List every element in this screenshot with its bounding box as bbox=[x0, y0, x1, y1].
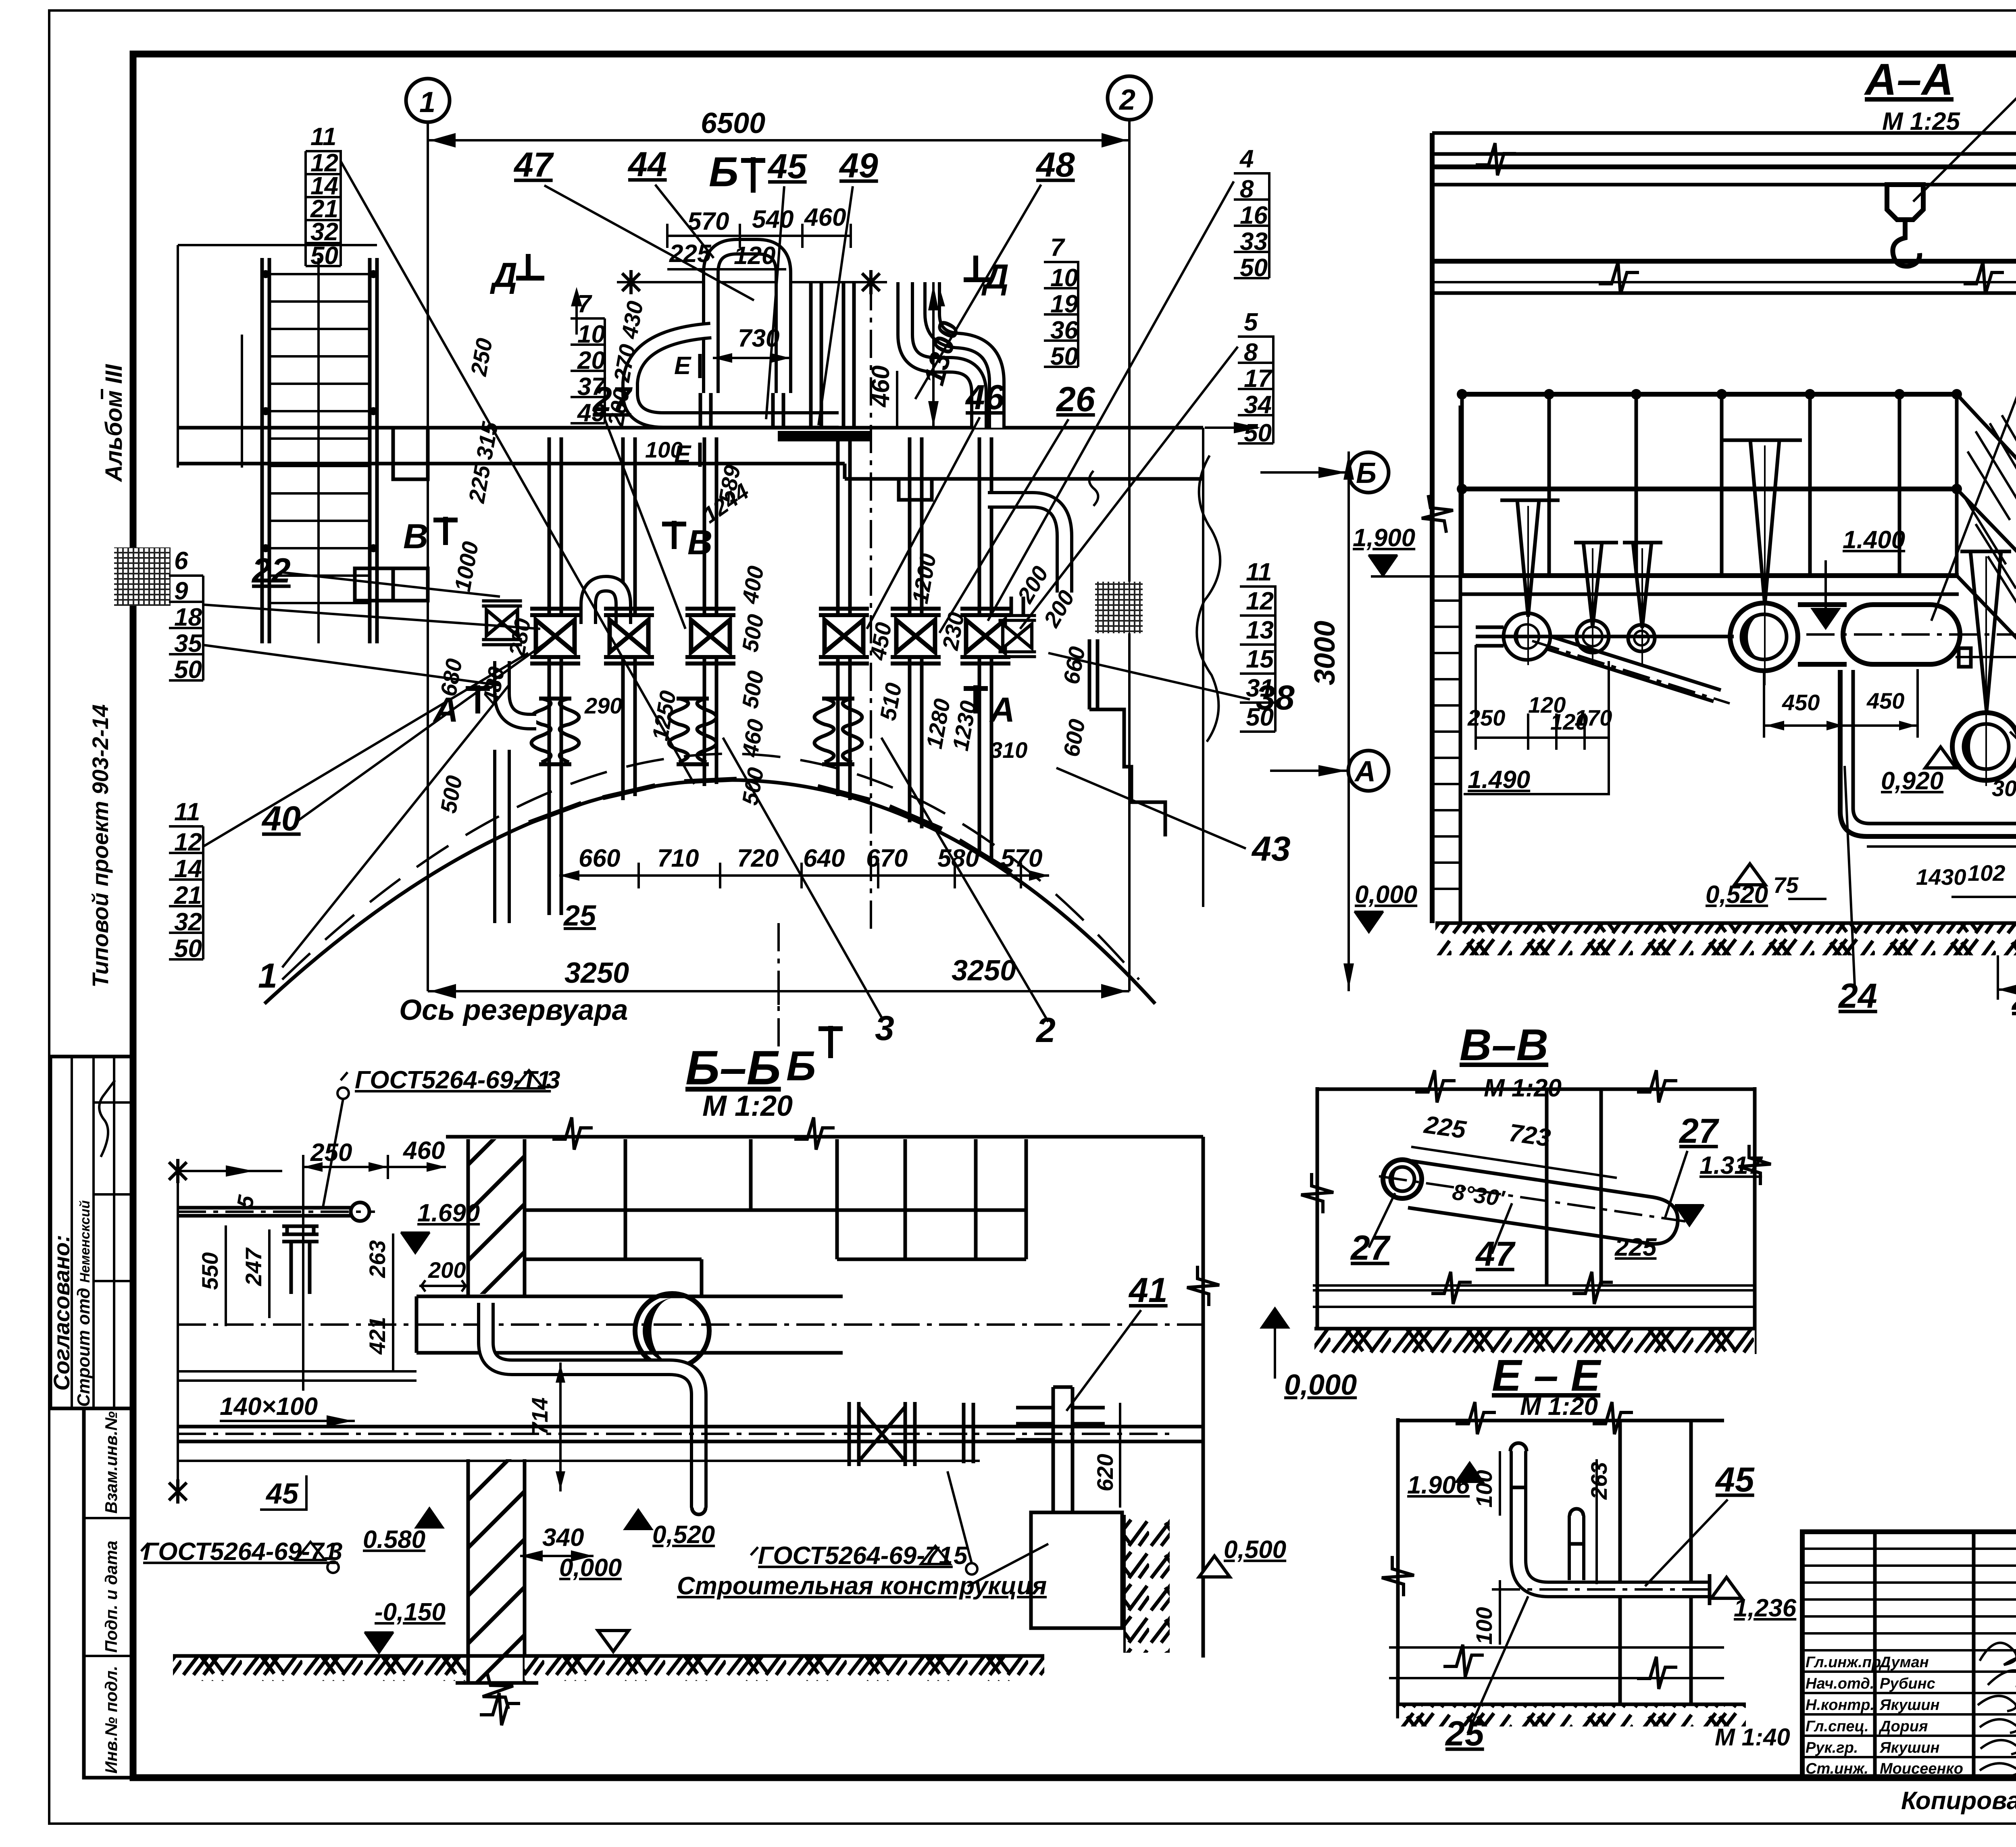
svg-text:3: 3 bbox=[875, 1009, 894, 1048]
svg-text:Дория: Дория bbox=[1879, 1718, 1928, 1735]
svg-text:Инв.№ подл.: Инв.№ подл. bbox=[102, 1666, 121, 1774]
svg-text:3250: 3250 bbox=[564, 957, 629, 989]
svg-text:8: 8 bbox=[1240, 175, 1254, 203]
svg-text:640: 640 bbox=[803, 844, 845, 872]
svg-text:100: 100 bbox=[1471, 1470, 1497, 1508]
svg-text:Н.контр.: Н.контр. bbox=[1806, 1697, 1874, 1714]
svg-text:12: 12 bbox=[1246, 587, 1274, 615]
svg-text:225: 225 bbox=[1422, 1111, 1468, 1144]
svg-text:32: 32 bbox=[174, 908, 202, 936]
svg-text:9: 9 bbox=[174, 577, 188, 605]
svg-text:263: 263 bbox=[1586, 1462, 1612, 1500]
svg-text:45: 45 bbox=[265, 1478, 299, 1510]
svg-text:1.690: 1.690 bbox=[417, 1199, 480, 1227]
svg-text:6500: 6500 bbox=[701, 107, 765, 139]
svg-text:М 1:20: М 1:20 bbox=[702, 1090, 793, 1122]
svg-text:10: 10 bbox=[577, 320, 605, 348]
svg-text:М 1:20: М 1:20 bbox=[1520, 1393, 1598, 1421]
svg-text:550: 550 bbox=[197, 1252, 223, 1290]
svg-text:27: 27 bbox=[1350, 1229, 1391, 1267]
svg-text:1.400: 1.400 bbox=[1843, 526, 1905, 554]
svg-text:200: 200 bbox=[428, 1257, 466, 1283]
svg-text:0,000: 0,000 bbox=[1284, 1369, 1357, 1401]
svg-text:0,000: 0,000 bbox=[559, 1554, 622, 1582]
svg-text:225: 225 bbox=[669, 240, 712, 268]
svg-text:А: А bbox=[1354, 755, 1376, 788]
svg-text:47: 47 bbox=[513, 146, 554, 184]
svg-text:44: 44 bbox=[627, 145, 667, 184]
svg-text:10: 10 bbox=[1050, 264, 1078, 292]
svg-text:Д: Д bbox=[489, 256, 517, 295]
svg-text:310: 310 bbox=[990, 737, 1027, 763]
svg-text:50: 50 bbox=[310, 242, 338, 270]
svg-text:36: 36 bbox=[1050, 316, 1078, 344]
svg-text:170: 170 bbox=[1574, 705, 1612, 730]
svg-text:Гл.спец.: Гл.спец. bbox=[1806, 1718, 1869, 1735]
svg-text:6: 6 bbox=[174, 547, 188, 575]
svg-text:120: 120 bbox=[734, 242, 775, 270]
svg-text:714: 714 bbox=[527, 1398, 552, 1435]
svg-text:100: 100 bbox=[645, 437, 683, 462]
svg-text:5: 5 bbox=[1244, 308, 1258, 336]
svg-text:620: 620 bbox=[1092, 1454, 1118, 1491]
svg-text:Б: Б bbox=[786, 1043, 816, 1090]
svg-text:8: 8 bbox=[1244, 339, 1258, 366]
svg-text:27: 27 bbox=[1679, 1112, 1720, 1150]
svg-text:225: 225 bbox=[1614, 1233, 1657, 1261]
svg-text:14: 14 bbox=[174, 855, 202, 883]
svg-text:Копировал: Копировал bbox=[1901, 1787, 2016, 1815]
svg-text:11: 11 bbox=[310, 123, 336, 151]
svg-text:730: 730 bbox=[738, 324, 779, 352]
svg-text:540: 540 bbox=[752, 206, 793, 233]
svg-text:Альбом III: Альбом III bbox=[101, 364, 127, 483]
svg-text:35: 35 bbox=[174, 630, 202, 657]
svg-text:460: 460 bbox=[804, 204, 846, 231]
svg-text:Моисеенко: Моисеенко bbox=[1880, 1760, 1963, 1777]
svg-text:7: 7 bbox=[577, 290, 592, 318]
svg-text:ГОСТ5264-69-71: ГОСТ5264-69-71 bbox=[143, 1538, 338, 1566]
svg-text:720: 720 bbox=[737, 844, 779, 872]
svg-text:1: 1 bbox=[258, 957, 277, 995]
svg-text:50: 50 bbox=[1244, 419, 1272, 447]
svg-text:Нач.отд.: Нач.отд. bbox=[1806, 1675, 1874, 1692]
svg-text:50: 50 bbox=[174, 935, 202, 963]
svg-text:20: 20 bbox=[577, 347, 605, 374]
svg-text:В–В: В–В bbox=[1460, 1020, 1548, 1070]
svg-text:1.490: 1.490 bbox=[1468, 766, 1530, 794]
svg-text:25: 25 bbox=[1445, 1714, 1485, 1753]
svg-text:25: 25 bbox=[563, 900, 596, 932]
svg-text:3250: 3250 bbox=[952, 955, 1016, 987]
svg-text:43: 43 bbox=[1251, 830, 1291, 868]
svg-text:16: 16 bbox=[1240, 202, 1268, 229]
svg-text:50: 50 bbox=[174, 656, 202, 684]
svg-text:Думан: Думан bbox=[1879, 1654, 1929, 1671]
svg-text:Строительная конструкция: Строительная конструкция bbox=[677, 1572, 1047, 1600]
svg-text:340: 340 bbox=[542, 1524, 584, 1552]
svg-text:140×100: 140×100 bbox=[220, 1393, 318, 1421]
svg-text:300: 300 bbox=[1992, 776, 2016, 801]
svg-text:0,520: 0,520 bbox=[652, 1521, 715, 1549]
svg-text:Б: Б bbox=[1356, 457, 1377, 489]
svg-text:Рук.гр.: Рук.гр. bbox=[1806, 1739, 1858, 1756]
svg-text:11: 11 bbox=[174, 798, 200, 826]
svg-text:570: 570 bbox=[1001, 844, 1042, 872]
svg-text:102: 102 bbox=[1968, 860, 2005, 886]
svg-text:247: 247 bbox=[241, 1247, 266, 1286]
svg-text:3000: 3000 bbox=[1309, 621, 1341, 685]
svg-text:Согласовано:: Согласовано: bbox=[49, 1235, 74, 1391]
svg-text:0.580: 0.580 bbox=[363, 1526, 425, 1554]
svg-text:250: 250 bbox=[310, 1139, 352, 1167]
svg-text:41: 41 bbox=[1128, 1271, 1168, 1310]
svg-text:48: 48 bbox=[1035, 146, 1075, 184]
svg-text:ГОСТ5264-69-71: ГОСТ5264-69-71 bbox=[758, 1542, 953, 1570]
svg-text:Б: Б bbox=[709, 149, 739, 196]
svg-text:Рубинс: Рубинс bbox=[1880, 1675, 1935, 1692]
svg-text:250: 250 bbox=[1467, 705, 1505, 730]
svg-text:34: 34 bbox=[1244, 391, 1272, 419]
svg-text:18: 18 bbox=[174, 603, 202, 631]
svg-text:1,900: 1,900 bbox=[1353, 524, 1415, 552]
svg-text:421: 421 bbox=[364, 1317, 390, 1355]
svg-text:710: 710 bbox=[657, 844, 699, 872]
svg-text:47: 47 bbox=[1475, 1235, 1516, 1273]
svg-text:723: 723 bbox=[1507, 1119, 1552, 1152]
svg-text:26: 26 bbox=[1056, 380, 1095, 419]
svg-text:21: 21 bbox=[174, 882, 202, 909]
svg-text:45: 45 bbox=[767, 147, 807, 186]
svg-text:11: 11 bbox=[1246, 558, 1272, 586]
svg-text:15: 15 bbox=[1246, 645, 1274, 673]
svg-text:75: 75 bbox=[1773, 872, 1799, 898]
svg-text:3: 3 bbox=[546, 1066, 560, 1094]
svg-text:4: 4 bbox=[1239, 145, 1254, 173]
svg-text:40: 40 bbox=[261, 799, 301, 838]
svg-text:24: 24 bbox=[1838, 977, 1877, 1015]
svg-text:23: 23 bbox=[2011, 979, 2016, 1017]
svg-text:670: 670 bbox=[866, 844, 908, 872]
svg-text:Б–Б: Б–Б bbox=[685, 1041, 781, 1095]
svg-text:Ось резервуара: Ось резервуара bbox=[399, 994, 628, 1026]
svg-text:12: 12 bbox=[174, 828, 202, 856]
svg-text:660: 660 bbox=[579, 844, 620, 872]
svg-text:450: 450 bbox=[1782, 690, 1820, 715]
svg-text:Ст.инж.: Ст.инж. bbox=[1806, 1760, 1868, 1777]
svg-text:-0,150: -0,150 bbox=[375, 1598, 446, 1626]
svg-text:0,500: 0,500 bbox=[1224, 1536, 1286, 1564]
svg-text:7: 7 bbox=[1050, 234, 1065, 262]
svg-text:450: 450 bbox=[1866, 688, 1904, 713]
svg-text:22: 22 bbox=[251, 551, 291, 590]
svg-text:М 1:40: М 1:40 bbox=[1715, 1724, 1790, 1751]
svg-text:19: 19 bbox=[1050, 290, 1078, 318]
svg-text:50: 50 bbox=[1050, 343, 1078, 370]
svg-text:А–А: А–А bbox=[1864, 55, 1954, 104]
svg-text:1.317: 1.317 bbox=[1699, 1152, 1763, 1179]
svg-text:Подп. и дата: Подп. и дата bbox=[102, 1541, 121, 1653]
svg-text:А: А bbox=[989, 691, 1015, 729]
svg-text:46: 46 bbox=[965, 378, 1005, 417]
svg-text:17: 17 bbox=[1244, 365, 1272, 393]
svg-text:570: 570 bbox=[687, 208, 729, 235]
svg-text:В: В bbox=[687, 523, 712, 562]
svg-text:0,920: 0,920 bbox=[1881, 767, 1943, 795]
svg-text:Е: Е bbox=[674, 352, 691, 380]
svg-text:1: 1 bbox=[419, 86, 435, 119]
svg-text:263: 263 bbox=[364, 1240, 390, 1278]
svg-text:Взам.инв.№: Взам.инв.№ bbox=[102, 1411, 121, 1514]
svg-text:Типовой проект 903-2-14: Типовой проект 903-2-14 bbox=[87, 704, 113, 988]
svg-text:В: В bbox=[403, 517, 428, 556]
svg-text:13: 13 bbox=[1246, 616, 1274, 644]
svg-text:33: 33 bbox=[1240, 228, 1268, 256]
svg-text:460: 460 bbox=[402, 1137, 445, 1165]
svg-text:2: 2 bbox=[1118, 84, 1135, 116]
svg-text:Якушин: Якушин bbox=[1879, 1739, 1940, 1756]
svg-text:0,000: 0,000 bbox=[1355, 881, 1417, 909]
svg-text:50: 50 bbox=[1240, 254, 1268, 282]
svg-text:49: 49 bbox=[839, 146, 878, 185]
svg-text:100: 100 bbox=[1471, 1607, 1497, 1645]
svg-text:45: 45 bbox=[1715, 1460, 1755, 1499]
svg-text:290: 290 bbox=[584, 693, 622, 718]
svg-text:Гл.инж.пр.: Гл.инж.пр. bbox=[1806, 1654, 1885, 1671]
svg-text:Якушин: Якушин bbox=[1879, 1697, 1940, 1714]
svg-text:460: 460 bbox=[867, 366, 895, 408]
svg-text:1430: 1430 bbox=[1916, 864, 1966, 890]
svg-text:38: 38 bbox=[1256, 678, 1295, 717]
